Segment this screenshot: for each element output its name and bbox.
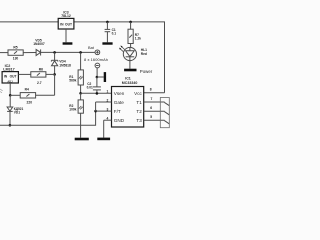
battery plus terminal xyxy=(95,50,100,55)
svg-text:T2: T2 xyxy=(136,109,142,114)
svg-text:560k: 560k xyxy=(69,78,76,82)
ground bar right of battery xyxy=(104,72,106,82)
node junction R1 tap xyxy=(79,51,82,54)
svg-text:VD1: VD1 xyxy=(14,111,20,115)
wire IC2 OUT to R6 xyxy=(18,73,30,75)
wire VD1 to bottom rail xyxy=(9,112,11,126)
svg-text:Bat: Bat xyxy=(88,45,95,50)
wire top +V rail left of IC3 xyxy=(0,21,58,23)
svg-text:1N4007: 1N4007 xyxy=(33,42,45,46)
svg-text:R6: R6 xyxy=(39,67,43,71)
svg-text:7: 7 xyxy=(151,97,153,101)
wire bottom rail xyxy=(0,111,96,125)
node junction C2 on Vsen wire xyxy=(96,92,99,95)
voltage regulator IC2 LM317 xyxy=(2,72,18,83)
wire LED cathode down xyxy=(129,61,131,69)
svg-text:8 x 1600mAh: 8 x 1600mAh xyxy=(84,57,108,62)
switch lever T1 xyxy=(164,102,169,105)
wire GND down xyxy=(103,120,105,137)
wire IC3 GND pin stub xyxy=(65,29,67,42)
wire battery minus down to ground node xyxy=(96,68,98,77)
wire top +V rail right of IC3 to right corner down to Vcc xyxy=(74,22,165,93)
resistor R2 xyxy=(78,100,83,113)
svg-text:1.2k: 1.2k xyxy=(135,37,141,41)
svg-text:OUT: OUT xyxy=(10,75,17,79)
node junction ADJ R4 VD1 xyxy=(9,94,12,97)
svg-text:0.01: 0.01 xyxy=(87,85,93,89)
svg-text:100k: 100k xyxy=(69,107,76,111)
wire Vsen from divider to IC1 pin 1 xyxy=(81,92,112,94)
wire VD5 to battery plus with taps xyxy=(41,51,95,53)
svg-text:GND: GND xyxy=(114,118,125,123)
wire VD4 anode down to R6 node xyxy=(54,66,56,75)
capacitor C1 xyxy=(106,22,108,29)
wire Gate pin 2 to grounded net xyxy=(96,101,112,103)
node junction battery minus ground C2 xyxy=(96,76,99,79)
wire R6 to charging node xyxy=(46,73,55,75)
svg-text:1: 1 xyxy=(106,89,108,93)
voltage regulator IC3 78L12 xyxy=(58,18,74,29)
svg-text:1N5818: 1N5818 xyxy=(59,63,71,67)
wire R2 top xyxy=(80,93,82,100)
wire R1 bottom to divider tap xyxy=(80,85,82,93)
svg-text:220: 220 xyxy=(27,101,33,105)
switch lever T3 xyxy=(164,121,169,124)
ground under LED xyxy=(124,69,136,72)
ground under IC3 xyxy=(63,42,73,44)
svg-text:OUT: OUT xyxy=(65,22,72,26)
svg-text:6: 6 xyxy=(150,106,152,110)
wire Gate vertical xyxy=(95,102,97,111)
svg-text:Vsen: Vsen xyxy=(114,91,125,96)
wire ADJ node down to VD1 xyxy=(9,95,11,107)
svg-text:130: 130 xyxy=(13,57,19,61)
wire R4 to vertical xyxy=(36,94,55,96)
node junction divider tap xyxy=(79,92,82,95)
wire F/T pin 3 xyxy=(96,110,112,112)
svg-text:78L12: 78L12 xyxy=(61,14,71,18)
diode VD5 1N4007 xyxy=(36,49,41,55)
ground under R2 xyxy=(75,138,89,141)
ground under C1 xyxy=(102,42,112,44)
node junction R7 on top rail xyxy=(129,21,132,24)
svg-text:0.1: 0.1 xyxy=(112,32,117,36)
wire R5 to VD5 xyxy=(23,52,36,54)
wire ground stub right xyxy=(97,76,104,78)
svg-text:2.7: 2.7 xyxy=(37,81,42,85)
wire GND pin 4 xyxy=(104,119,112,121)
svg-text:5: 5 xyxy=(150,115,152,119)
resistor R5 xyxy=(8,50,23,55)
node junction VD4 tap xyxy=(53,51,56,54)
diode VD1 KD521 xyxy=(7,107,13,111)
wire IC2 ADJ pin down xyxy=(9,83,11,95)
wire Vcc stub to IC1 pin 8 xyxy=(144,92,165,94)
svg-text:Gate: Gate xyxy=(114,100,124,105)
wire ADJ node to R4 xyxy=(10,94,20,96)
node junction R6 VD4 charging node xyxy=(53,73,56,76)
wire rail to R7 xyxy=(130,22,132,29)
wire R1 top to battery feed xyxy=(80,52,82,70)
wire fragment at left edge xyxy=(0,89,3,91)
svg-text:R4: R4 xyxy=(25,88,29,92)
svg-text:T3: T3 xyxy=(136,118,142,123)
wire R2 bottom crossing rail to ground xyxy=(80,113,82,138)
svg-text:R5: R5 xyxy=(13,45,17,49)
node junction Gate F/T tie xyxy=(94,110,97,113)
resistor R1 xyxy=(78,70,83,85)
capacitor C2 xyxy=(96,77,98,87)
resistor R7 xyxy=(128,29,133,43)
IC U1: battery charge controller IC1 MC33340 xyxy=(112,87,144,128)
wire T1 pin 7 to switch xyxy=(144,101,165,103)
wire R7 to LED xyxy=(130,44,132,48)
switch SA1 enclosure xyxy=(160,98,169,128)
node junction C1 on top rail xyxy=(106,21,109,24)
diode VD4 1N5818 schottky xyxy=(51,59,57,61)
wire T2 pin 6 to switch xyxy=(144,110,165,112)
svg-text:T1: T1 xyxy=(136,100,142,105)
svg-text:Power: Power xyxy=(140,69,153,74)
switch lever T2 xyxy=(164,112,169,115)
svg-text:LM317: LM317 xyxy=(3,67,14,71)
wire R5 input from left edge xyxy=(0,52,8,54)
wire charging node down to R4 corner xyxy=(54,74,56,95)
resistor R4 xyxy=(20,93,35,98)
ground under IC1 GND xyxy=(97,138,110,141)
wire T3 pin 5 to switch xyxy=(144,119,165,121)
LED emission arrows xyxy=(119,46,125,52)
node junction VD1 on bottom rail xyxy=(9,124,12,127)
svg-text:Vcc: Vcc xyxy=(134,91,142,96)
battery minus terminal xyxy=(95,63,100,68)
wire vertical from tap to VD4 xyxy=(54,52,56,60)
svg-text:8: 8 xyxy=(150,87,152,91)
LED HL1 xyxy=(123,47,136,60)
svg-text:F/T: F/T xyxy=(114,109,121,114)
resistor R6 xyxy=(31,72,46,77)
svg-text:ADJ: ADJ xyxy=(7,79,13,83)
svg-text:Red: Red xyxy=(141,52,147,56)
svg-text:MC33340: MC33340 xyxy=(122,81,138,85)
